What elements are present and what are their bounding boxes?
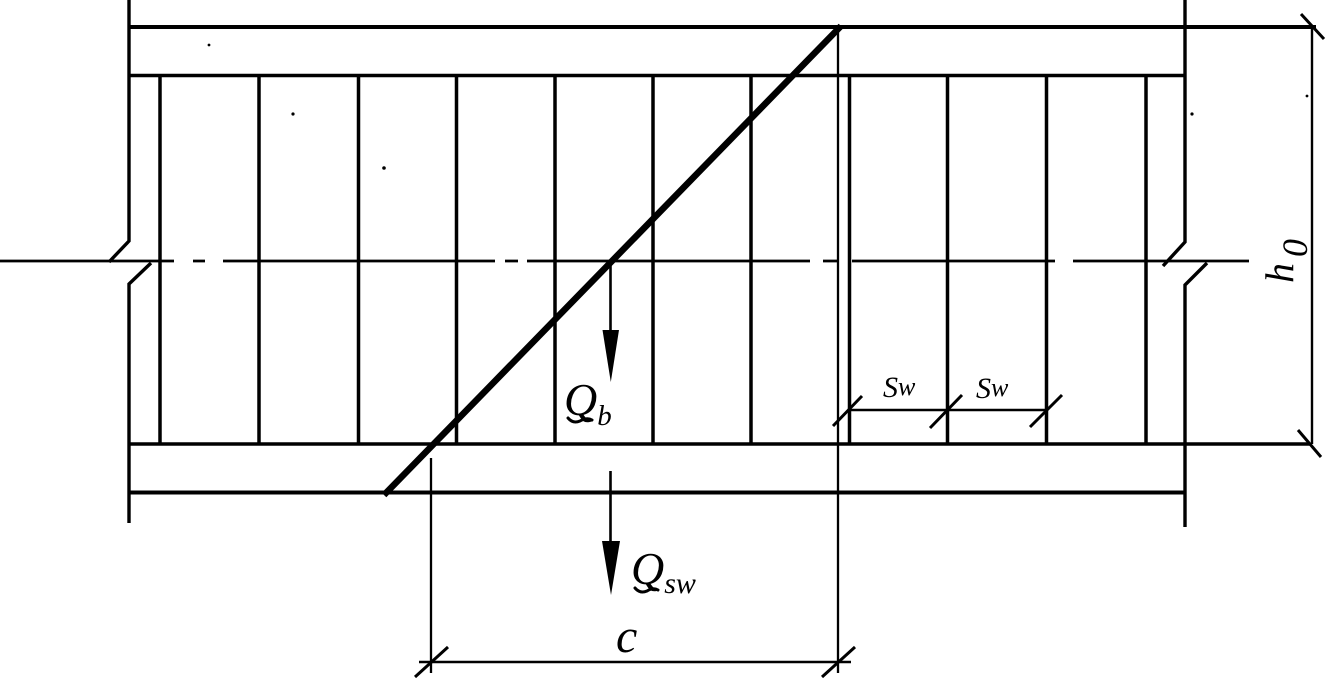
dimension line c — [419, 661, 851, 664]
stirrup 9 — [946, 75, 950, 444]
top outer chord line (also h0 extension) — [129, 25, 1316, 29]
extension line at crack bottom (c dimension left) — [430, 458, 432, 673]
svg-text:Sw: Sw — [976, 372, 1009, 405]
tick mark h0 top — [1301, 14, 1324, 39]
force arrow Qb shaft — [609, 264, 612, 334]
stirrup 4 — [455, 75, 459, 444]
bottom inner chord line (extends right as h0 extension) — [129, 442, 1310, 446]
beam axis centerline (dash-dot) — [0, 260, 1249, 263]
scan speck 3 — [382, 166, 386, 170]
stirrup 10 — [1045, 75, 1049, 444]
extension line at crack top (c dimension right) — [837, 28, 839, 673]
beam right edge lower segment with break jog — [1185, 263, 1207, 527]
svg-text:c: c — [616, 610, 637, 663]
force arrow Qsw head — [602, 541, 620, 595]
beam right edge upper segment with break jog — [1163, 0, 1185, 266]
force arrow Qb head — [603, 330, 620, 382]
label Qb swash tail — [568, 418, 592, 422]
beam left edge upper segment with break jog — [109, 0, 129, 262]
stirrup 1 — [158, 75, 162, 444]
stirrup 5 — [553, 75, 557, 444]
tick mark sw middle — [930, 395, 962, 428]
inclined shear crack — [384, 26, 841, 495]
stirrup 6 — [651, 75, 655, 444]
scan speck 1 — [208, 44, 211, 47]
scan speck 5 — [1306, 95, 1309, 98]
tick mark c right — [822, 647, 855, 677]
dimension line h0 — [1311, 27, 1313, 444]
scan speck 2 — [291, 112, 294, 115]
dimension line sw — [848, 409, 1047, 412]
force arrow Qsw shaft — [609, 471, 612, 545]
top inner chord line — [129, 74, 1185, 78]
label Qsw swash tail — [635, 588, 658, 592]
stirrup 2 — [257, 75, 261, 444]
svg-text:Sw: Sw — [883, 371, 916, 404]
tick mark h0 bottom — [1298, 430, 1321, 457]
tick mark sw right — [1030, 395, 1062, 427]
stirrup 7 — [749, 75, 753, 444]
beam left edge lower segment with break jog — [129, 263, 151, 523]
stirrup 11 — [1144, 75, 1148, 444]
stirrup 3 — [357, 75, 361, 444]
tick mark c left — [415, 647, 448, 677]
stirrup 8 — [848, 75, 852, 444]
bottom outer chord line — [128, 491, 1185, 495]
tick mark sw left — [833, 396, 862, 426]
scan speck 4 — [1190, 112, 1193, 115]
